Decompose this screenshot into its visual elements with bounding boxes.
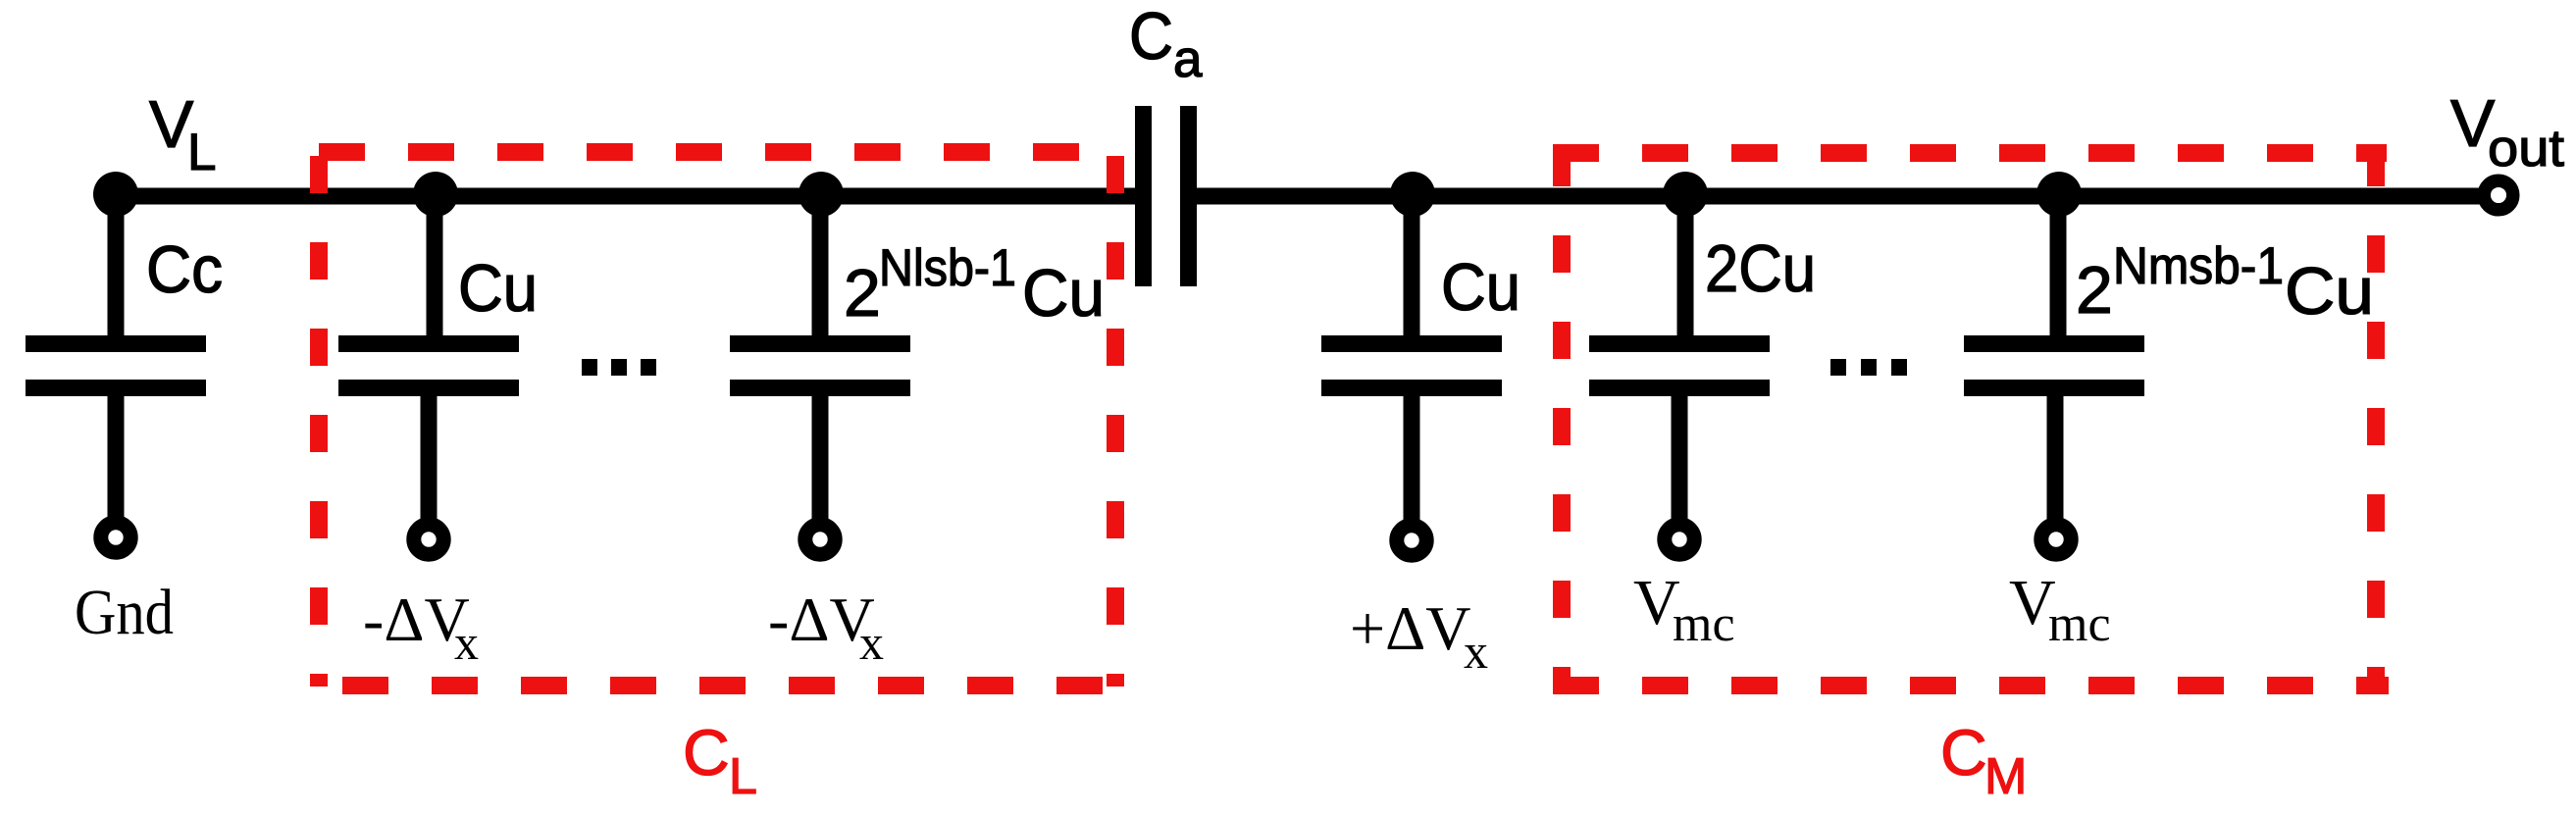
node V_L junction dot (93, 172, 138, 217)
wire stem C-Nlsb lower (812, 395, 829, 526)
capacitor Ca plates (1135, 106, 1197, 286)
svg-text:Cc: Cc (146, 232, 223, 307)
wire stem C-Nlsb (812, 190, 829, 336)
terminal -dVx1 open circle (414, 525, 443, 554)
node label V_out (2450, 86, 2564, 178)
value label 2^Nmsb-1 Cu (2076, 237, 2374, 329)
node label Vmc (first) (1633, 567, 1735, 652)
wire stem C-Nmsb lower (2047, 395, 2064, 526)
ellipsis dots between 2Cu and C-Nmsb (1830, 359, 1907, 376)
dashed box C_L top edge (319, 143, 1118, 161)
dashed box C_M bottom edge (1553, 677, 2389, 694)
dashed box C_L bottom edge (342, 677, 1120, 694)
ellipsis dots between Cu1 and C-Nlsb (582, 359, 656, 376)
wire stem Cc (108, 190, 125, 336)
node label +dVx (1350, 593, 1488, 679)
wire stem Cu1 (427, 190, 443, 336)
svg-text:x: x (454, 615, 479, 670)
svg-text:Nlsb-1: Nlsb-1 (879, 239, 1016, 297)
node junction dot 2Cu (1663, 172, 1708, 217)
dashed box C_L left edge (310, 156, 328, 687)
dashed box C_M right edge (2367, 149, 2385, 687)
wire stem 2Cu lower (1672, 395, 1688, 526)
value label 2^Nlsb-1 Cu (844, 239, 1105, 331)
wire stem Cc lower (108, 395, 125, 524)
ground label Gnd (75, 577, 174, 648)
value label Cc (146, 232, 223, 307)
terminal Vout open circle (2484, 180, 2513, 210)
value label 2Cu (1705, 231, 1816, 306)
svg-text:Cu: Cu (2285, 254, 2374, 329)
terminal -dVx2 open circle (805, 525, 835, 554)
node junction dot Cu2 (1390, 172, 1435, 217)
wire stem Cu2 (1404, 190, 1420, 336)
node junction dot C-Nmsb (2036, 172, 2082, 217)
svg-text:C: C (1940, 716, 1987, 789)
svg-text:Cu: Cu (1022, 256, 1105, 331)
wire stem 2Cu (1677, 190, 1694, 336)
wire stem Cu2 lower (1404, 395, 1420, 529)
svg-text:C: C (683, 716, 730, 789)
dashed box C_M top edge (1553, 144, 2387, 162)
svg-text:2: 2 (2076, 253, 2113, 328)
svg-text:Nmsb-1: Nmsb-1 (2113, 237, 2284, 295)
svg-text:Gnd: Gnd (75, 577, 174, 648)
capacitor Cu1 plates (338, 335, 519, 396)
node label -dVx (first) (363, 585, 479, 670)
terminal Vmc1 open circle (1665, 525, 1694, 554)
node label V_L (149, 87, 216, 181)
capacitor C-Nlsb plates (730, 335, 910, 396)
terminal +dVx open circle (1397, 526, 1426, 555)
svg-text:2Cu: 2Cu (1705, 231, 1816, 306)
svg-text:x: x (1464, 624, 1488, 679)
svg-text:L: L (729, 748, 757, 805)
node junction dot Cu1 (413, 172, 458, 217)
svg-text:C: C (1129, 0, 1173, 74)
wire main bus left segment (V_L to Ca) (116, 188, 1136, 205)
value label Cu (middle) (1441, 250, 1520, 325)
label C_L (red) (683, 716, 757, 805)
wire stem Cu1 lower (421, 395, 438, 526)
capacitor Cc plates (26, 335, 206, 396)
dashed box C_L right edge (1107, 156, 1124, 687)
capacitor C-Nmsb plates (1964, 335, 2144, 396)
svg-text:M: M (1984, 748, 2027, 805)
svg-text:mc: mc (1673, 596, 1735, 652)
wire main bus right segment (Ca to Vout) (1196, 188, 2480, 205)
dashed box C_M left edge (1553, 149, 1571, 687)
svg-text:2: 2 (844, 256, 881, 331)
value label C_a (1129, 0, 1203, 88)
node junction dot C-Nlsb (799, 172, 844, 217)
value label Cu (first) (458, 251, 538, 326)
terminal Vmc2 open circle (2041, 525, 2071, 554)
svg-text:+ΔV: +ΔV (1350, 593, 1470, 663)
svg-text:out: out (2488, 120, 2564, 178)
svg-text:x: x (859, 615, 884, 670)
capacitor Cu2 plates (1321, 335, 1502, 396)
svg-text:a: a (1173, 30, 1203, 88)
node label Vmc (second) (2009, 567, 2111, 652)
capacitor 2Cu plates (1589, 335, 1770, 396)
terminal Gnd open circle (101, 523, 130, 552)
svg-text:Cu: Cu (458, 251, 538, 326)
node label -dVx (second) (768, 585, 884, 670)
svg-text:L: L (187, 124, 216, 181)
svg-text:mc: mc (2048, 596, 2111, 652)
label C_M (red) (1940, 716, 2027, 805)
svg-text:Cu: Cu (1441, 250, 1520, 325)
wire stem C-Nmsb (2050, 190, 2067, 336)
